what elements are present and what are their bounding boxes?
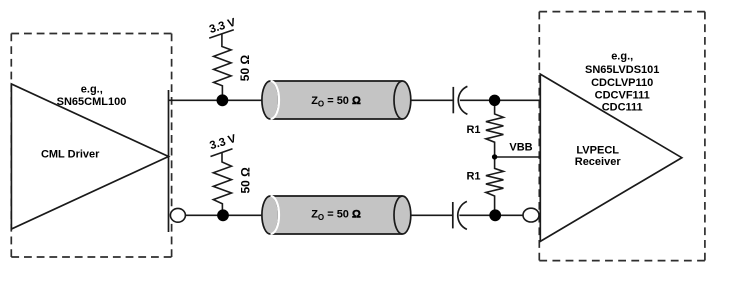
svg-text:VBB: VBB	[509, 142, 532, 154]
svg-text:50 Ω: 50 Ω	[238, 55, 252, 82]
svg-text:LVPECL: LVPECL	[576, 145, 619, 157]
svg-text:CDC111: CDC111	[602, 102, 643, 114]
svg-text:SN65CML100: SN65CML100	[57, 96, 127, 108]
svg-text:Receiver: Receiver	[575, 156, 622, 168]
svg-text:R1: R1	[466, 124, 480, 136]
svg-text:e.g.,: e.g.,	[611, 50, 633, 62]
svg-text:CDCLVP110: CDCLVP110	[591, 77, 653, 89]
svg-text:50 Ω: 50 Ω	[239, 167, 253, 194]
svg-text:3.3 V: 3.3 V	[208, 133, 238, 152]
svg-text:SN65LVDS101: SN65LVDS101	[585, 64, 659, 76]
svg-text:R1: R1	[466, 171, 480, 183]
svg-text:CML Driver: CML Driver	[41, 148, 100, 160]
svg-text:CDCVF111: CDCVF111	[595, 89, 650, 101]
svg-text:e.g.,: e.g.,	[81, 83, 103, 95]
